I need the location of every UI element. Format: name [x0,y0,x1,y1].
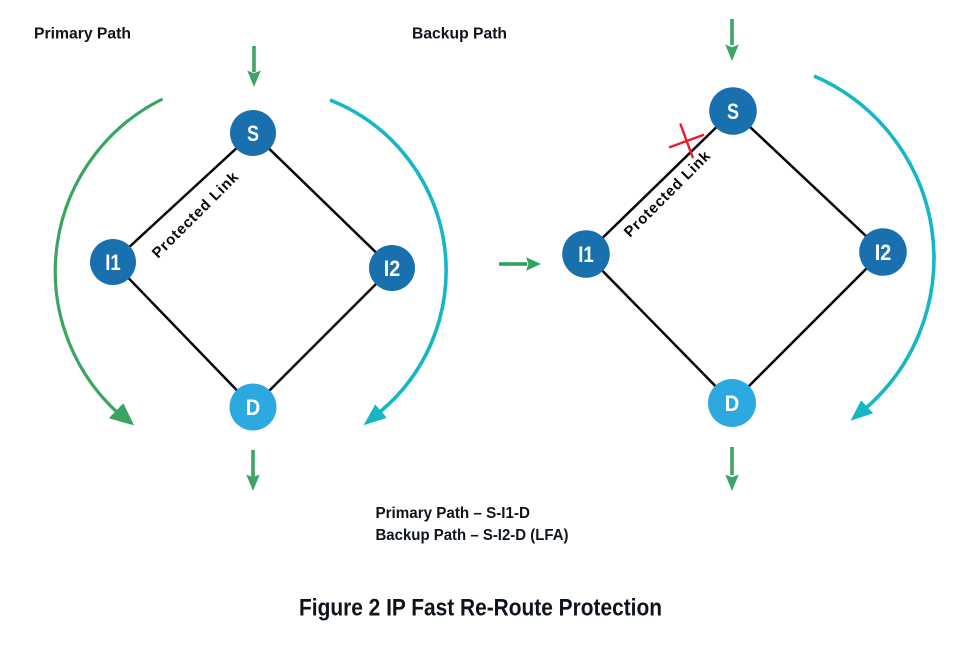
svg-text:Figure 2 IP Fast Re-Route Prot: Figure 2 IP Fast Re-Route Protection [299,595,662,622]
wire I2-D (left) [253,268,392,407]
svg-text:S: S [727,99,739,124]
node I2 (left) [369,245,415,291]
wire S-I1 (protected link, right) [586,111,733,254]
svg-text:I1: I1 [105,250,121,275]
primary path arc (left, green curved arrow) [55,99,162,414]
svg-text:D: D [246,395,261,420]
arrow into S (right, green) [725,19,739,61]
svg-text:Backup Path: Backup Path [412,26,507,43]
node S (left) [230,110,276,156]
node I1 (right) [562,230,610,278]
arrow into S (left, green) [247,46,261,87]
backup path arc (right, teal curved arrow) [814,76,934,409]
wire I1-D (left) [113,262,253,407]
arrow between diagrams (green, pointing right) [499,257,541,271]
node I1 (left) [90,239,136,285]
wire S-I2 (left) [253,133,392,268]
wire S-I2 (right) [733,111,883,252]
node S (right) [709,87,757,135]
wire I1-D (right) [586,254,732,403]
svg-text:Primary Path – S-I1-D: Primary Path – S-I1-D [376,505,531,522]
svg-text:I2: I2 [875,240,892,265]
label Protected Link (right) [621,147,715,241]
svg-text:Protected Link: Protected Link [621,147,715,241]
wire S-I1 (protected link, left) [113,133,253,262]
svg-text:I1: I1 [578,242,594,267]
arrow out of D (right, green) [725,447,739,491]
svg-text:S: S [247,121,259,146]
backup path arc (left, teal curved arrow) [330,100,446,414]
node D (left) [230,384,277,431]
svg-text:D: D [725,391,740,416]
arrow out of D (left, green) [246,450,260,491]
node I2 (right) [859,228,907,276]
failure X mark (red) [670,125,703,158]
svg-text:Primary Path: Primary Path [34,26,131,43]
svg-text:I2: I2 [384,256,401,281]
label Protected Link (left) [149,168,243,262]
svg-text:Backup Path – S-I2-D (LFA): Backup Path – S-I2-D (LFA) [376,527,569,544]
node D (right) [708,379,756,427]
wire I2-D (right) [732,252,883,403]
